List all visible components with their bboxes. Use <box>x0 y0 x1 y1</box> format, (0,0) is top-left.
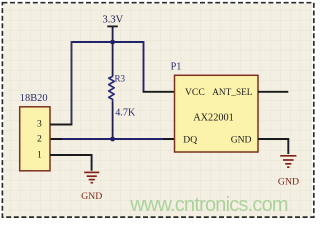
power 3.3V bar symbol <box>107 26 118 42</box>
svg-text:18B20: 18B20 <box>20 93 48 104</box>
svg-text:R3: R3 <box>115 74 126 84</box>
svg-text:3: 3 <box>37 119 42 130</box>
ground symbol right <box>280 156 296 167</box>
svg-text:GND: GND <box>231 134 252 145</box>
junction at 3.3V rail <box>110 40 115 45</box>
svg-text:www.cntronics.com: www.cntronics.com <box>129 194 288 216</box>
ground symbol left <box>84 172 99 182</box>
pin ANT_SEL line <box>258 91 288 93</box>
svg-text:3.3V: 3.3V <box>102 14 123 25</box>
svg-text:AX22001: AX22001 <box>193 113 234 124</box>
wire: into VCC pin of P1 <box>143 91 175 93</box>
wire: 3.3V rail horizontal <box>72 41 144 43</box>
svg-text:ANT_SEL: ANT_SEL <box>212 88 253 98</box>
svg-text:GND: GND <box>278 176 299 187</box>
svg-text:DQ: DQ <box>183 134 197 145</box>
svg-text:VCC: VCC <box>185 87 205 98</box>
svg-text:GND: GND <box>81 191 102 202</box>
power 3.3V net label <box>102 14 123 25</box>
wire: left branch down to 18B20 pin 3 <box>71 41 73 124</box>
svg-text:1: 1 <box>37 150 42 161</box>
svg-text:2: 2 <box>37 134 42 145</box>
pin 1 line / wire to ground <box>50 155 93 171</box>
component P1 body <box>175 75 259 152</box>
junction at R3 bottom / DQ net <box>110 137 115 142</box>
connector 18B20 body <box>20 107 50 171</box>
pin 3 line <box>50 124 72 126</box>
svg-text:P1: P1 <box>171 62 182 73</box>
wire: right branch down to VCC <box>143 41 145 92</box>
resistor R3 <box>109 42 115 139</box>
wire: DQ net (18B20 pin2 - R3 - P1 DQ) <box>50 138 175 140</box>
svg-text:4.7K: 4.7K <box>115 108 136 119</box>
pin GND line / wire to ground <box>258 139 289 154</box>
